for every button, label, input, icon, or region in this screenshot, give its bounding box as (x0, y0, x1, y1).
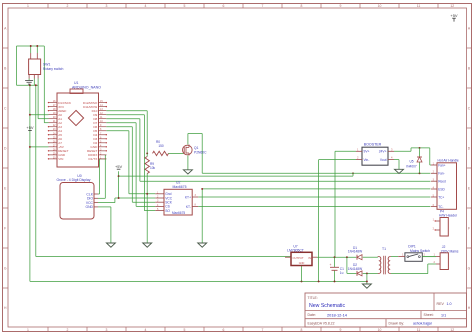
svg-text:Date:: Date: (308, 313, 316, 317)
svg-text:+5V: +5V (115, 164, 123, 169)
svg-text:OUTPUT: OUTPUT (293, 256, 304, 260)
svg-text:GND: GND (299, 262, 305, 265)
svg-text:4: 4 (145, 4, 147, 8)
svg-text:TC+: TC+ (438, 195, 444, 199)
svg-text:Reed: Reed (438, 180, 446, 184)
svg-text:+5V: +5V (26, 125, 34, 130)
svg-text:TC-: TC- (438, 205, 443, 209)
svg-text:+5V: +5V (450, 13, 458, 18)
svg-text:SW1: SW1 (43, 63, 50, 67)
svg-text:Fan-: Fan- (438, 172, 445, 176)
svg-text:IN4007: IN4007 (406, 165, 417, 169)
svg-text:SO: SO (165, 209, 170, 213)
svg-text:Hot Air Handle: Hot Air Handle (438, 158, 459, 162)
svg-text:1u: 1u (340, 271, 344, 275)
svg-text:12: 12 (450, 4, 454, 8)
svg-text:1: 1 (27, 4, 29, 8)
svg-text:Drawn By:: Drawn By: (389, 321, 405, 325)
svg-text:1N4148W: 1N4148W (348, 250, 362, 254)
svg-text:3: 3 (106, 328, 108, 332)
svg-text:2018-12-14: 2018-12-14 (327, 312, 348, 317)
svg-text:11: 11 (417, 4, 421, 8)
svg-text:Vin-: Vin- (364, 158, 370, 162)
svg-text:3: 3 (106, 4, 108, 8)
svg-text:Max6675: Max6675 (172, 211, 185, 215)
svg-text:P2N60C: P2N60C (194, 150, 207, 154)
svg-text:10: 10 (378, 328, 382, 332)
svg-text:2: 2 (67, 328, 69, 332)
svg-text:REV: REV (437, 302, 445, 306)
svg-text:24V+: 24V+ (379, 150, 387, 154)
svg-text:VIN: VIN (58, 157, 63, 161)
svg-text:6: 6 (223, 328, 225, 332)
svg-text:ESD: ESD (438, 187, 445, 191)
svg-text:1: 1 (27, 328, 29, 332)
svg-text:KT-: KT- (186, 205, 191, 209)
svg-text:T1: T1 (382, 247, 386, 251)
svg-text:11: 11 (417, 328, 421, 332)
svg-text:9: 9 (340, 328, 342, 332)
svg-text:F: F (4, 226, 6, 230)
svg-text:8: 8 (301, 328, 303, 332)
svg-text:2: 2 (67, 4, 69, 8)
svg-text:150: 150 (158, 144, 164, 148)
svg-text:IN: IN (308, 256, 311, 260)
svg-text:Vout: Vout (380, 158, 387, 162)
svg-text:1N4148W: 1N4148W (348, 267, 362, 271)
svg-text:9V+: 9V+ (364, 150, 370, 154)
svg-text:G: G (4, 266, 7, 270)
svg-text:4: 4 (145, 328, 147, 332)
svg-text:1/1: 1/1 (441, 313, 446, 317)
svg-text:7: 7 (262, 4, 264, 8)
svg-text:ashok.bajjal: ashok.bajjal (413, 322, 432, 326)
svg-text:10: 10 (378, 4, 382, 8)
svg-text:D1/TX: D1/TX (89, 157, 98, 161)
svg-text:H/W Header: H/W Header (439, 214, 458, 218)
svg-text:5: 5 (184, 4, 186, 8)
svg-text:U1: U1 (74, 81, 79, 85)
svg-text:Sheet:: Sheet: (424, 313, 434, 317)
svg-text:Rotary switch: Rotary switch (43, 67, 63, 71)
svg-text:Max6675: Max6675 (173, 185, 187, 189)
svg-text:10k: 10k (150, 166, 156, 170)
svg-text:BOOSTER: BOOSTER (364, 142, 382, 146)
svg-text:DIP1: DIP1 (408, 245, 416, 249)
svg-text:+: + (330, 263, 332, 267)
svg-text:TITLE:: TITLE: (308, 296, 318, 300)
svg-text:EasyEDA V5.8.22: EasyEDA V5.8.22 (308, 321, 335, 325)
svg-text:9: 9 (340, 4, 342, 8)
svg-text:KT+: KT+ (185, 195, 191, 199)
svg-text:GND: GND (85, 205, 93, 209)
svg-text:6: 6 (223, 4, 225, 8)
svg-text:U5: U5 (409, 160, 413, 164)
svg-text:5: 5 (184, 328, 186, 332)
svg-text:F: F (468, 226, 470, 230)
svg-text:12: 12 (450, 328, 454, 332)
svg-text:New Schematic: New Schematic (309, 303, 345, 309)
svg-text:Fan+: Fan+ (438, 163, 445, 167)
svg-text:7: 7 (262, 328, 264, 332)
svg-text:Grove - 4 Digit Display: Grove - 4 Digit Display (57, 178, 91, 182)
svg-text:8: 8 (301, 4, 303, 8)
svg-text:G: G (468, 266, 471, 270)
svg-text:1.0: 1.0 (447, 302, 452, 306)
